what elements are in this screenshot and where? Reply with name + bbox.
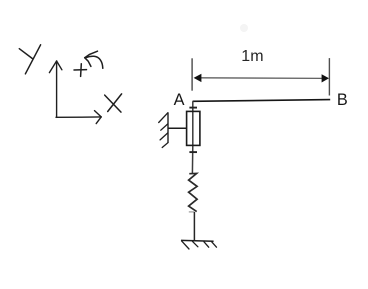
wall link to damper <box>168 127 187 129</box>
dimension arrow left <box>194 74 202 82</box>
wall hatch 4 <box>162 143 168 148</box>
svg-text:1m: 1m <box>241 48 263 65</box>
wall hatch 3 <box>160 133 168 140</box>
ground hatch 4 <box>212 242 217 248</box>
dimension line <box>198 77 324 80</box>
dimension extension line right <box>328 58 330 95</box>
damper cylinder <box>187 111 200 145</box>
label Y <box>19 45 40 74</box>
wall line <box>167 112 169 143</box>
dimension arrow right <box>322 74 329 82</box>
label X <box>105 94 122 112</box>
x-axis arrow <box>56 111 101 124</box>
ground hatch 3 <box>204 242 209 248</box>
ground hatch 2 <box>192 241 198 247</box>
damper top tick <box>189 107 197 109</box>
svg-text:B: B <box>337 91 348 109</box>
wall hatch 1 <box>159 113 168 123</box>
wall hatch 2 <box>161 124 168 130</box>
plus sign <box>74 64 87 77</box>
ground line <box>181 239 214 242</box>
smudge artifact <box>240 24 248 32</box>
svg-text:A: A <box>174 91 185 109</box>
y-axis arrow <box>49 61 62 117</box>
bar AB <box>193 100 331 102</box>
spring foot <box>189 211 195 213</box>
lower rod <box>193 212 195 240</box>
ccw rotation arrow <box>85 51 103 68</box>
damper rod <box>191 101 193 173</box>
ground hatch 1 <box>182 241 190 249</box>
dimension extension line left <box>191 58 193 90</box>
damper bottom tick <box>189 151 197 153</box>
spring <box>189 173 198 211</box>
